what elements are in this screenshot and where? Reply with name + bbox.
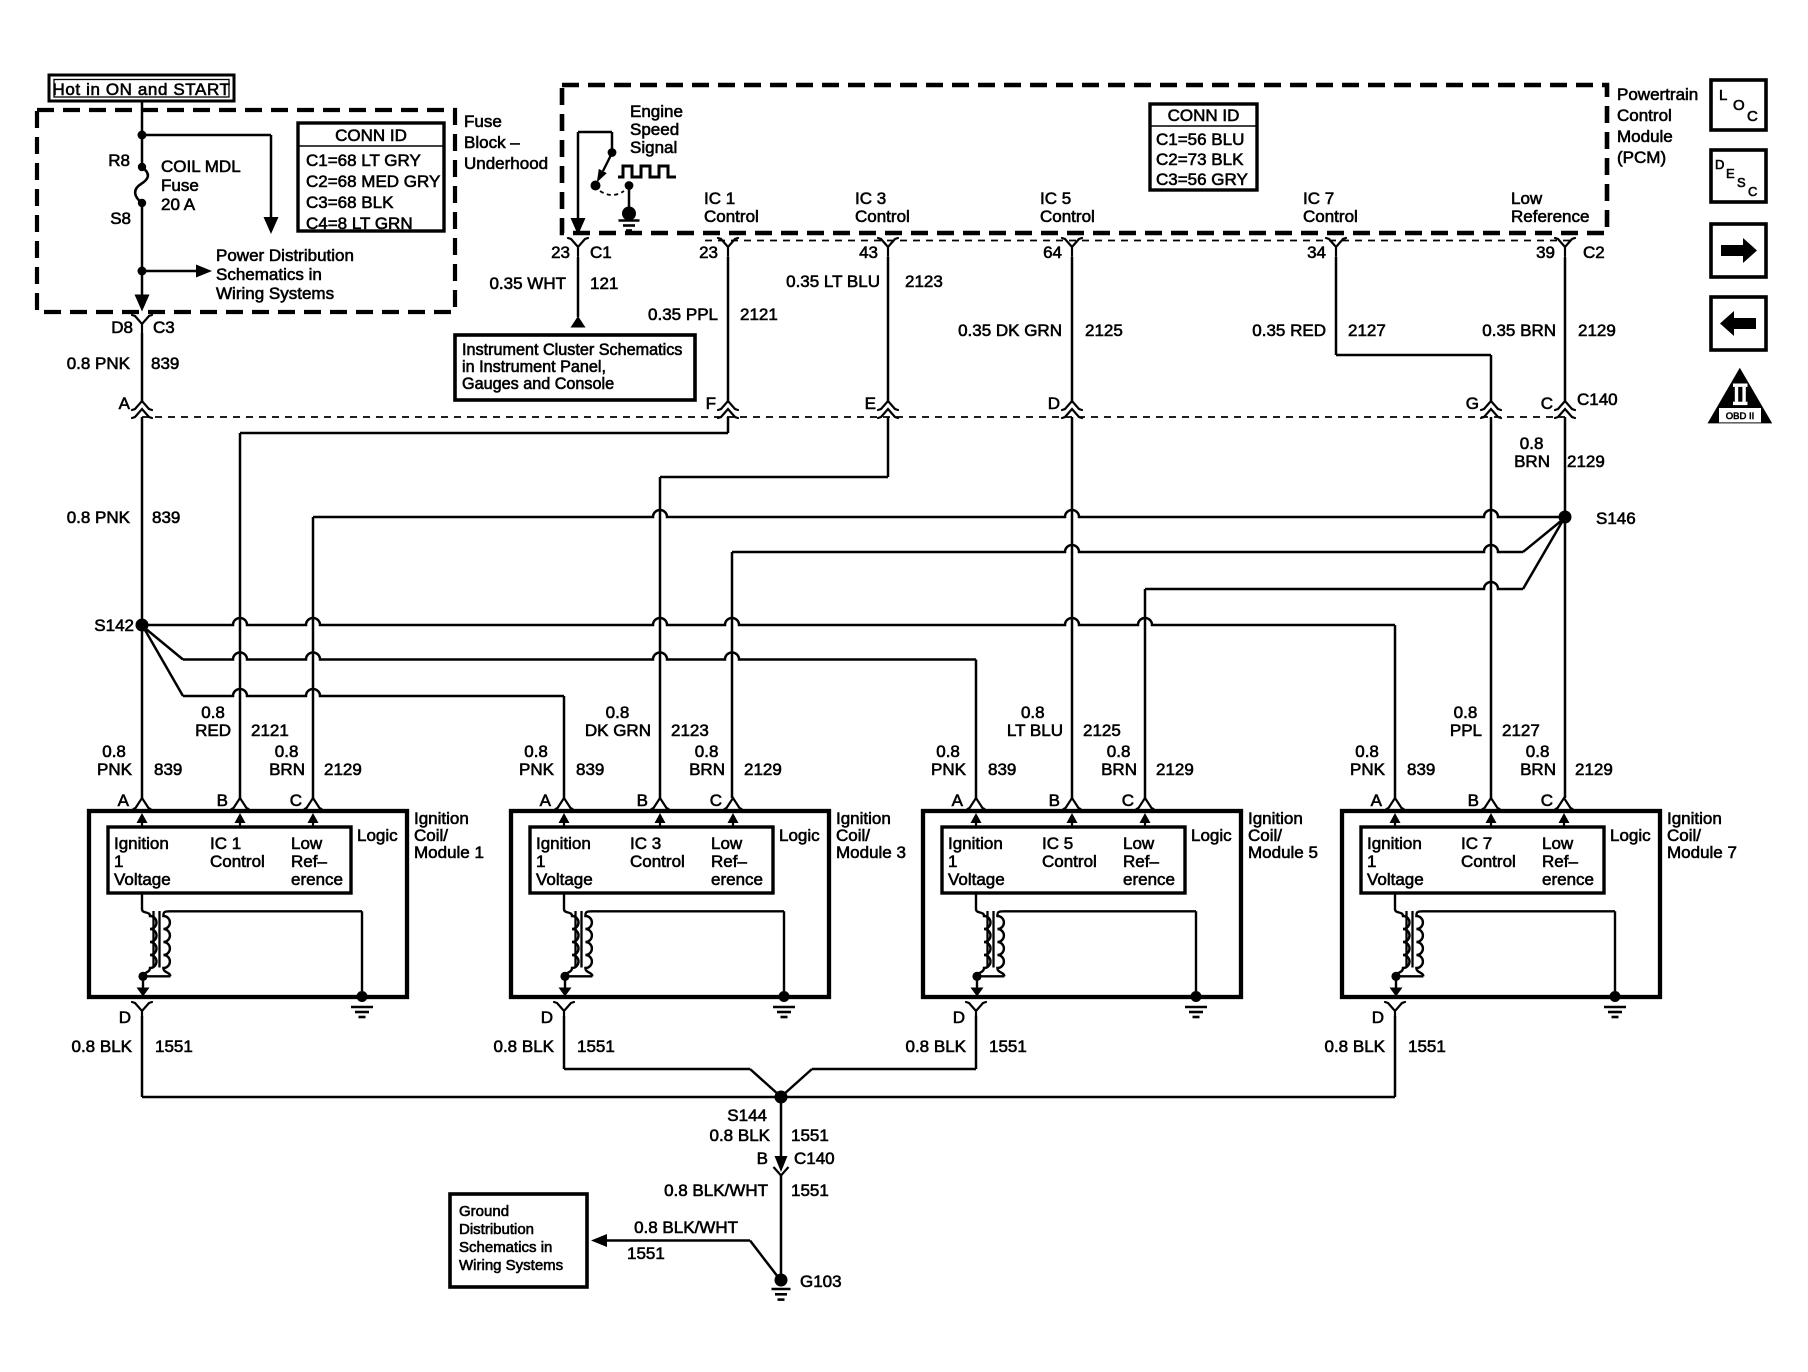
svg-text:Logic: Logic	[357, 826, 398, 845]
svg-text:Module 5: Module 5	[1248, 843, 1318, 862]
svg-text:Control: Control	[1040, 207, 1095, 226]
OBD II icon	[1708, 368, 1773, 424]
wire: ground distribution branch	[591, 1234, 607, 1247]
svg-text:F: F	[706, 394, 716, 413]
svg-text:0.8: 0.8	[936, 742, 960, 761]
wire: branch arrow to Power Distribution text	[142, 270, 198, 273]
svg-text:Ref–: Ref–	[711, 852, 747, 871]
svg-text:0.8: 0.8	[201, 703, 225, 722]
svg-text:C140: C140	[1577, 390, 1618, 409]
ground G103	[775, 1274, 788, 1287]
svg-text:23: 23	[699, 243, 718, 262]
svg-text:Control: Control	[1042, 852, 1097, 871]
wire: F to module 1 pin B (0.8 RED 2121)	[727, 417, 730, 433]
svg-text:DK GRN: DK GRN	[585, 721, 651, 740]
square wave symbol	[618, 166, 676, 177]
svg-text:Voltage: Voltage	[948, 870, 1005, 889]
svg-text:G103: G103	[800, 1272, 842, 1291]
svg-text:839: 839	[154, 760, 182, 779]
svg-text:C: C	[290, 791, 302, 810]
svg-text:Module: Module	[1617, 127, 1673, 146]
svg-text:2129: 2129	[1156, 760, 1194, 779]
wire: G to module 7 pin B (0.8 PPL 2127)	[1490, 417, 1493, 798]
junction node (hot feed branch)	[138, 131, 147, 140]
svg-text:Fuse: Fuse	[464, 112, 502, 131]
svg-text:0.35 DK GRN: 0.35 DK GRN	[958, 321, 1062, 340]
transformer (ignition coil 1)	[141, 893, 143, 909]
svg-text:Module 1: Module 1	[414, 843, 484, 862]
svg-text:0.8 BLK: 0.8 BLK	[906, 1037, 967, 1056]
ignition coil/module 7	[1342, 791, 1737, 1017]
svg-text:Reference: Reference	[1511, 207, 1589, 226]
svg-text:2123: 2123	[905, 272, 943, 291]
connector: module 3 pin D	[554, 1002, 574, 1017]
wire: S142 to module 3 pin A	[145, 630, 183, 696]
svg-text:A: A	[118, 791, 130, 810]
svg-text:PPL: PPL	[1450, 721, 1482, 740]
svg-text:Voltage: Voltage	[114, 870, 171, 889]
CONN ID table (fuse block)	[298, 123, 444, 231]
svg-text:1551: 1551	[791, 1181, 829, 1200]
svg-text:0.8 PNK: 0.8 PNK	[67, 354, 131, 373]
svg-text:23: 23	[551, 243, 570, 262]
svg-text:PNK: PNK	[1350, 760, 1386, 779]
wire: module 5 D to S144	[975, 1016, 978, 1069]
svg-text:0.8 BLK/WHT: 0.8 BLK/WHT	[634, 1218, 738, 1237]
svg-text:E: E	[865, 394, 876, 413]
svg-text:839: 839	[576, 760, 604, 779]
svg-text:Distribution: Distribution	[459, 1221, 534, 1238]
svg-text:Underhood: Underhood	[464, 154, 548, 173]
splice S142	[136, 619, 149, 632]
wire: S142 to module 5 pin A	[146, 629, 183, 660]
svg-text:0.35 RED: 0.35 RED	[1252, 321, 1326, 340]
wire: branch to power distribution arrow	[142, 134, 271, 137]
svg-text:erence: erence	[711, 870, 763, 889]
svg-text:B: B	[1468, 791, 1479, 810]
svg-text:0.8: 0.8	[1454, 703, 1478, 722]
connector C3 pin D8	[132, 315, 152, 333]
connector C140 pin A	[132, 401, 152, 410]
svg-text:C3=56 GRY: C3=56 GRY	[1156, 170, 1248, 189]
svg-text:2127: 2127	[1348, 321, 1386, 340]
forward arrow icon	[1711, 224, 1766, 277]
DESC icon	[1711, 150, 1766, 202]
svg-text:Ground: Ground	[459, 1203, 509, 1220]
svg-text:PNK: PNK	[519, 760, 555, 779]
svg-text:Ignition: Ignition	[948, 834, 1003, 853]
PCM pin 39	[1555, 238, 1575, 256]
svg-text:S: S	[1737, 175, 1746, 190]
svg-text:D: D	[953, 1008, 965, 1027]
svg-text:BRN: BRN	[269, 760, 305, 779]
transformer (ignition coil 3)	[563, 893, 565, 909]
svg-text:IC 1: IC 1	[210, 834, 241, 853]
switch arm with arrow	[603, 153, 612, 171]
svg-text:S142: S142	[94, 616, 134, 635]
svg-text:IC 7: IC 7	[1303, 189, 1334, 208]
svg-text:Ref–: Ref–	[291, 852, 327, 871]
svg-text:839: 839	[152, 508, 180, 527]
wire: S142 to module 1 pin A	[141, 625, 144, 798]
svg-text:S144: S144	[727, 1106, 767, 1125]
svg-text:0.8: 0.8	[695, 742, 719, 761]
svg-text:C140: C140	[794, 1149, 835, 1168]
svg-text:BRN: BRN	[1514, 452, 1550, 471]
svg-text:0.8: 0.8	[102, 742, 126, 761]
svg-text:C: C	[1747, 108, 1758, 125]
wire: S144 to C140 pin B	[780, 1097, 783, 1158]
svg-text:IC 1: IC 1	[704, 189, 735, 208]
svg-text:L: L	[1719, 87, 1727, 104]
svg-text:Module 3: Module 3	[836, 843, 906, 862]
svg-text:D: D	[1372, 1008, 1384, 1027]
svg-text:C3=68 BLK: C3=68 BLK	[306, 193, 394, 212]
wire 0.35 WHT 121: C1-23 to instrument cluster	[577, 257, 580, 317]
wire: E to module 3 pin B (0.8 DK GRN 2123)	[887, 417, 890, 477]
svg-text:64: 64	[1043, 243, 1062, 262]
svg-text:1551: 1551	[989, 1037, 1027, 1056]
svg-text:LT BLU: LT BLU	[1007, 721, 1063, 740]
svg-text:0.8: 0.8	[1107, 742, 1131, 761]
svg-text:Wiring Systems: Wiring Systems	[216, 284, 334, 303]
connector C140 pin B	[774, 1167, 789, 1176]
svg-text:0.35 PPL: 0.35 PPL	[648, 305, 718, 324]
wire 0.35 BRN 2129 (low reference)	[1564, 257, 1567, 401]
svg-text:G: G	[1466, 394, 1479, 413]
svg-text:0.8 BLK: 0.8 BLK	[1325, 1037, 1386, 1056]
PCM pin 34	[1326, 238, 1346, 256]
svg-text:Ignition: Ignition	[536, 834, 591, 853]
svg-text:0.8: 0.8	[524, 742, 548, 761]
svg-text:PNK: PNK	[931, 760, 967, 779]
ground (engine speed signal)	[622, 207, 636, 221]
svg-text:A: A	[952, 791, 964, 810]
svg-text:Logic: Logic	[1191, 826, 1232, 845]
svg-text:C2: C2	[1583, 243, 1605, 262]
wire: module 1 D to ground bus	[141, 1016, 144, 1097]
connector C140 pin F	[718, 401, 738, 410]
PCM pin 43	[878, 238, 898, 256]
svg-text:Control: Control	[704, 207, 759, 226]
svg-text:0.8 BLK: 0.8 BLK	[710, 1126, 771, 1145]
svg-text:2121: 2121	[251, 721, 289, 740]
svg-text:0.8: 0.8	[1520, 434, 1544, 453]
svg-text:Low: Low	[1123, 834, 1155, 853]
svg-text:0.8 BLK: 0.8 BLK	[72, 1037, 133, 1056]
svg-text:2125: 2125	[1083, 721, 1121, 740]
ground bus wire 0.8 BLK 1551	[142, 1096, 1395, 1099]
svg-text:839: 839	[1407, 760, 1435, 779]
wire: S146 to module 1 pin C	[313, 510, 1565, 517]
svg-text:A: A	[1371, 791, 1383, 810]
svg-text:BRN: BRN	[689, 760, 725, 779]
svg-text:Fuse: Fuse	[161, 176, 199, 195]
wire: S146 to module 3 pin C	[1523, 521, 1561, 552]
PCM dashed box (Powertrain Control Module)	[562, 85, 1607, 233]
svg-text:2129: 2129	[1575, 760, 1613, 779]
wire 0.8 BLK/WHT 1551 to G103	[780, 1176, 783, 1277]
svg-text:Low: Low	[1511, 189, 1543, 208]
svg-text:Control: Control	[1303, 207, 1358, 226]
ground distribution box	[450, 1194, 587, 1287]
svg-text:RED: RED	[195, 721, 231, 740]
svg-text:IC 3: IC 3	[855, 189, 886, 208]
svg-text:Signal: Signal	[630, 138, 677, 157]
connector C140 (dashed face line)	[142, 416, 1565, 418]
back arrow icon	[1711, 297, 1766, 350]
svg-text:B: B	[637, 791, 648, 810]
svg-text:C3: C3	[153, 318, 175, 337]
svg-text:1: 1	[1367, 852, 1376, 871]
PCM pin 23	[718, 238, 738, 256]
svg-text:1551: 1551	[627, 1244, 665, 1263]
svg-text:Control: Control	[1617, 106, 1672, 125]
svg-text:erence: erence	[291, 870, 343, 889]
splice S144	[775, 1091, 788, 1104]
svg-text:C: C	[1122, 791, 1134, 810]
svg-text:2129: 2129	[324, 760, 362, 779]
svg-text:D: D	[119, 1008, 131, 1027]
svg-text:A: A	[119, 394, 131, 413]
wire: D to module 5 pin B (0.8 LT BLU 2125)	[1071, 417, 1074, 798]
wire 0.35 PPL 2121 (IC 1 control)	[727, 257, 730, 401]
svg-text:Low: Low	[291, 834, 323, 853]
svg-text:1551: 1551	[791, 1126, 829, 1145]
connector: module 5 pin D	[966, 1002, 986, 1017]
svg-text:Control: Control	[855, 207, 910, 226]
svg-text:C2=73 BLK: C2=73 BLK	[1156, 150, 1244, 169]
connector C140 pin D	[1062, 401, 1082, 410]
svg-text:in Instrument Panel,: in Instrument Panel,	[462, 358, 606, 376]
svg-text:IC 5: IC 5	[1040, 189, 1071, 208]
wire: module 7 D to ground bus	[1394, 1016, 1397, 1097]
svg-text:D: D	[541, 1008, 553, 1027]
svg-text:Power Distribution: Power Distribution	[216, 246, 354, 265]
wire: S146 to module 5 pin C	[1523, 522, 1562, 589]
svg-text:0.8: 0.8	[1526, 742, 1550, 761]
svg-text:Hot in ON and START: Hot in ON and START	[53, 80, 231, 99]
svg-text:D: D	[1715, 157, 1724, 172]
fuse COIL MDL 20A	[138, 163, 146, 171]
svg-text:Schematics in: Schematics in	[459, 1239, 552, 1256]
svg-text:B: B	[757, 1149, 768, 1168]
svg-text:43: 43	[859, 243, 878, 262]
wire 0.35 RED 2127 (IC 7 control)	[1335, 257, 1338, 355]
svg-text:C2=68 MED GRY: C2=68 MED GRY	[306, 172, 440, 191]
fuse block - underhood dashed box	[37, 110, 455, 312]
svg-text:C1=56 BLU: C1=56 BLU	[1156, 130, 1244, 149]
svg-text:2127: 2127	[1502, 721, 1540, 740]
ignition coil/module 3	[511, 791, 906, 1017]
PCM CONN ID table	[1150, 104, 1257, 190]
svg-text:20 A: 20 A	[161, 195, 196, 214]
junction node (S8 branch)	[138, 267, 147, 276]
svg-text:0.8 BLK/WHT: 0.8 BLK/WHT	[664, 1181, 768, 1200]
svg-text:Ignition: Ignition	[114, 834, 169, 853]
svg-text:Speed: Speed	[630, 120, 679, 139]
svg-text:1: 1	[948, 852, 957, 871]
instrument cluster schematics box	[455, 335, 695, 400]
svg-text:839: 839	[151, 354, 179, 373]
PCM connector C2 face (thin dashed)	[705, 240, 1570, 242]
svg-text:Ignition: Ignition	[1367, 834, 1422, 853]
wire 0.8 PNK 839 (A to S142)	[141, 417, 144, 625]
transformer (ignition coil 7)	[1394, 893, 1396, 909]
svg-text:C1=68 LT GRY: C1=68 LT GRY	[306, 151, 421, 170]
svg-text:2129: 2129	[1578, 321, 1616, 340]
svg-text:Logic: Logic	[1610, 826, 1651, 845]
svg-text:IC 3: IC 3	[630, 834, 661, 853]
svg-text:S146: S146	[1596, 509, 1636, 528]
svg-text:O: O	[1733, 97, 1745, 114]
svg-text:Control: Control	[630, 852, 685, 871]
svg-text:Voltage: Voltage	[536, 870, 593, 889]
ground (coil secondary)	[1191, 991, 1202, 1002]
svg-text:0.8: 0.8	[606, 703, 630, 722]
wire: fuse output S8 down	[141, 203, 144, 300]
svg-text:CONN ID: CONN ID	[1168, 106, 1240, 125]
ground (coil secondary)	[779, 991, 790, 1002]
PCM pin 64	[1062, 238, 1082, 256]
svg-text:Low: Low	[1542, 834, 1574, 853]
svg-text:Block –: Block –	[464, 133, 520, 152]
svg-text:34: 34	[1307, 243, 1326, 262]
svg-text:1551: 1551	[577, 1037, 615, 1056]
svg-text:PNK: PNK	[97, 760, 133, 779]
svg-text:0.8: 0.8	[275, 742, 299, 761]
splice S146	[1559, 511, 1572, 524]
svg-text:39: 39	[1536, 243, 1555, 262]
svg-text:OBD II: OBD II	[1726, 411, 1755, 422]
svg-text:2121: 2121	[740, 305, 778, 324]
svg-text:2123: 2123	[671, 721, 709, 740]
svg-text:R8: R8	[108, 151, 130, 170]
svg-text:2129: 2129	[1567, 452, 1605, 471]
connector C140 pin C	[1555, 401, 1575, 410]
svg-text:D8: D8	[111, 318, 133, 337]
svg-text:Wiring Systems: Wiring Systems	[459, 1257, 563, 1274]
wire: hot feed into fuse block	[141, 101, 144, 167]
svg-text:Ref–: Ref–	[1542, 852, 1578, 871]
svg-text:Control: Control	[210, 852, 265, 871]
svg-text:2129: 2129	[744, 760, 782, 779]
svg-text:Powertrain: Powertrain	[1617, 85, 1698, 104]
connector C140 pin G	[1481, 401, 1501, 410]
svg-text:Ref–: Ref–	[1123, 852, 1159, 871]
svg-text:1551: 1551	[1408, 1037, 1446, 1056]
svg-text:S8: S8	[110, 209, 131, 228]
svg-text:BRN: BRN	[1101, 760, 1137, 779]
svg-text:IC 5: IC 5	[1042, 834, 1073, 853]
svg-text:0.35 LT BLU: 0.35 LT BLU	[786, 272, 880, 291]
svg-text:Module 7: Module 7	[1667, 843, 1737, 862]
connector C140 pin E	[878, 401, 898, 410]
svg-text:C1: C1	[590, 243, 612, 262]
svg-text:C4=8 LT GRN: C4=8 LT GRN	[306, 214, 413, 233]
svg-text:A: A	[540, 791, 552, 810]
svg-text:0.35 WHT: 0.35 WHT	[489, 274, 566, 293]
wire 0.35 DK GRN 2125 (IC 5 control)	[1071, 257, 1074, 401]
wire: module 3 D to S144	[563, 1016, 566, 1069]
connector: module 1 pin D	[132, 1002, 152, 1017]
ground (coil secondary)	[1610, 991, 1621, 1002]
connector C1 pin 23	[568, 238, 588, 256]
svg-text:COIL MDL: COIL MDL	[161, 157, 241, 176]
svg-text:1: 1	[114, 852, 123, 871]
wire: S142 to module 7 pin A	[142, 618, 1395, 625]
svg-text:B: B	[217, 791, 228, 810]
svg-text:1551: 1551	[155, 1037, 193, 1056]
svg-text:Voltage: Voltage	[1367, 870, 1424, 889]
svg-text:C: C	[1541, 394, 1553, 413]
svg-text:erence: erence	[1542, 870, 1594, 889]
svg-text:0.8 PNK: 0.8 PNK	[67, 508, 131, 527]
svg-text:C: C	[710, 791, 722, 810]
svg-text:erence: erence	[1123, 870, 1175, 889]
LOC icon	[1711, 80, 1766, 130]
svg-text:Gauges and Console: Gauges and Console	[462, 375, 614, 393]
connector: module 7 pin D	[1385, 1002, 1405, 1017]
svg-text:IC 7: IC 7	[1461, 834, 1492, 853]
svg-text:839: 839	[988, 760, 1016, 779]
svg-text:(PCM): (PCM)	[1617, 148, 1666, 167]
svg-text:B: B	[1049, 791, 1060, 810]
svg-text:0.8: 0.8	[1021, 703, 1045, 722]
power label box: Hot in ON and START	[49, 75, 234, 101]
wire: engine speed signal to C1 pin 23	[577, 132, 580, 222]
svg-text:C: C	[1748, 184, 1757, 199]
svg-text:121: 121	[590, 274, 618, 293]
svg-text:Schematics in: Schematics in	[216, 265, 322, 284]
svg-text:Instrument Cluster Schematics: Instrument Cluster Schematics	[462, 341, 682, 359]
svg-text:0.35 BRN: 0.35 BRN	[1482, 321, 1556, 340]
svg-text:Control: Control	[1461, 852, 1516, 871]
svg-text:2125: 2125	[1085, 321, 1123, 340]
wire 0.35 LT BLU 2123 (IC 3 control)	[887, 257, 890, 401]
svg-text:CONN ID: CONN ID	[335, 126, 407, 145]
svg-text:0.8: 0.8	[1355, 742, 1379, 761]
transformer (ignition coil 5)	[975, 893, 977, 909]
svg-text:Low: Low	[711, 834, 743, 853]
ignition coil/module 1	[89, 791, 484, 1017]
svg-text:D: D	[1048, 394, 1060, 413]
svg-text:1: 1	[536, 852, 545, 871]
svg-text:Logic: Logic	[779, 826, 820, 845]
svg-text:0.8 BLK: 0.8 BLK	[494, 1037, 555, 1056]
svg-text:C: C	[1541, 791, 1553, 810]
svg-text:E: E	[1726, 166, 1735, 181]
svg-text:Engine: Engine	[630, 102, 683, 121]
wire: 0.8 PNK 839 from C3-D8 to connector A	[141, 333, 144, 401]
wire: C to S146 and module 7 pin C (0.8 BRN 2129)	[1564, 417, 1567, 798]
svg-text:BRN: BRN	[1520, 760, 1556, 779]
ground (coil secondary)	[357, 991, 368, 1002]
ignition coil/module 5	[923, 791, 1318, 1017]
